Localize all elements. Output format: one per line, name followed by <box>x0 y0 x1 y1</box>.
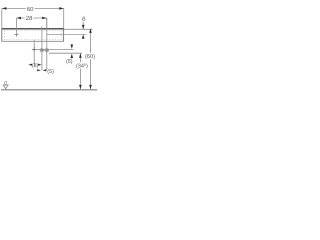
extension line basin top right <box>64 28 93 30</box>
svg-text:(8): (8) <box>32 63 39 69</box>
supply connection 1 <box>40 48 44 52</box>
dimension (34_5) label <box>77 62 88 68</box>
tap hole cross <box>14 33 18 37</box>
dimension 6 <box>82 22 84 29</box>
svg-text:(5): (5) <box>47 69 54 75</box>
drain line vertical <box>33 40 35 66</box>
dimension 60 arrows <box>2 7 64 10</box>
lower level extension line <box>49 52 82 54</box>
dimension (60) vertical <box>90 30 92 90</box>
dimension 60 label <box>26 6 35 11</box>
supply level extension line <box>37 48 74 50</box>
dimension (60) label <box>85 53 95 59</box>
floor line <box>1 89 97 91</box>
supply connection 2 <box>45 48 49 52</box>
svg-text:(60): (60) <box>85 53 95 60</box>
dimension (34_5) vertical <box>79 53 81 89</box>
hidden bowl dashed rect <box>4 30 61 39</box>
svg-text:(345): (345) <box>76 63 88 70</box>
svg-text:28: 28 <box>26 15 33 22</box>
dimension 60 line <box>2 8 64 28</box>
dimension (5) vertical right <box>71 44 73 58</box>
svg-text:6: 6 <box>82 16 86 23</box>
supply line 1 vertical <box>41 26 43 70</box>
drain cross <box>32 47 37 52</box>
dimension 28 line <box>17 18 47 32</box>
svg-text:60: 60 <box>27 6 34 13</box>
supply line 2 vertical <box>46 18 48 70</box>
extension line basin rim bottom right <box>47 33 87 35</box>
washbasin outline <box>1 28 64 41</box>
dimension 28 arrows <box>17 17 47 20</box>
dimension (8) <box>28 64 41 66</box>
datum triangle <box>3 85 8 89</box>
dimension (5) bottom <box>37 69 46 71</box>
svg-text:(5): (5) <box>66 59 73 65</box>
dimension 28 label <box>25 16 34 21</box>
svg-text:0: 0 <box>4 81 7 87</box>
